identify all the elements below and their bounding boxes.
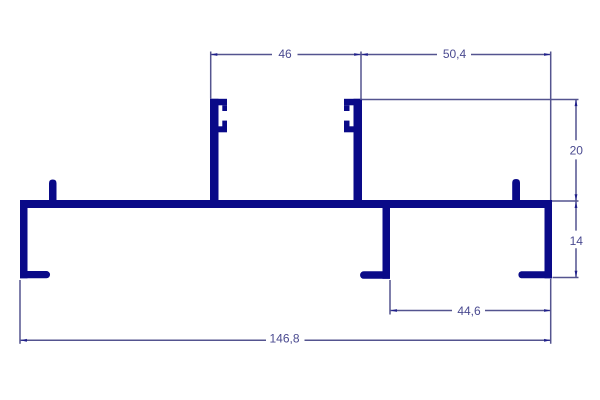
profile right stub (512, 179, 520, 201)
profile right foot (518, 271, 552, 278)
profile middle lower leg (383, 208, 391, 279)
svg-text:20: 20 (570, 144, 584, 158)
extension line right vertical long (550, 52, 552, 344)
right channel top arm (344, 99, 362, 106)
profile middle foot (360, 271, 390, 279)
left channel middle arm (219, 126, 228, 132)
profile left foot (20, 271, 50, 278)
right channel bottom lip (344, 121, 350, 128)
extension line left of dim 146,8 (19, 280, 21, 344)
svg-text:50,4: 50,4 (443, 47, 467, 61)
arrow 146,8 left (20, 339, 27, 342)
extension line left of dim 44,6 (389, 280, 391, 315)
extension line left of dim 46 (210, 52, 212, 99)
left channel top arm (210, 99, 227, 106)
right channel middle arm (344, 126, 354, 132)
arrow 44,6 left (390, 309, 397, 312)
dimension line 20 (575, 100, 577, 201)
arrow 46 left (211, 53, 218, 56)
profile left stub (49, 180, 57, 201)
dimension line 50,4 (362, 54, 551, 56)
profile left leg (20, 201, 28, 279)
svg-text:46: 46 (278, 47, 292, 61)
arrow 14 top (575, 201, 578, 208)
arrow 14 bottom (575, 271, 578, 278)
dimension line 14 (575, 202, 577, 278)
left channel bottom lip (222, 121, 227, 128)
arrow 146,8 right (544, 339, 551, 342)
extension tick at bar top right (552, 200, 579, 202)
svg-text:14: 14 (570, 234, 584, 248)
extension line shared 46 / 50,4 (360, 52, 362, 101)
arrow 50,4 left (361, 53, 368, 56)
dimension line 146,8 (21, 339, 551, 341)
profile main horizontal bar (20, 200, 552, 208)
right channel top lip (344, 105, 350, 111)
arrow 44,6 right (544, 309, 551, 312)
svg-text:146,8: 146,8 (269, 331, 299, 345)
dimension line 46 (211, 54, 361, 56)
profile left screw-channel wall (210, 99, 219, 201)
left channel top lip (222, 105, 227, 111)
svg-text:44,6: 44,6 (457, 304, 481, 318)
arrow 46 right (354, 53, 361, 56)
profile right leg (545, 208, 553, 279)
arrow 20 top (575, 100, 578, 107)
profile right screw-channel wall (354, 99, 363, 201)
arrow 50,4 right (544, 53, 551, 56)
extension line 20 top horizontal (362, 99, 579, 101)
arrow 20 bottom (575, 194, 578, 201)
dimension line 44,6 (391, 310, 551, 312)
extension line 14 bottom horizontal (553, 277, 579, 279)
